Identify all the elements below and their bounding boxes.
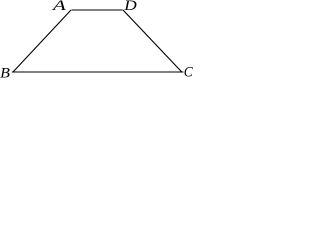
svg-text:C: C [184, 65, 193, 79]
svg-text:D: D [123, 0, 137, 14]
side AD (top of trapezoid) [71, 9, 122, 11]
side BC (bottom of trapezoid) [12, 71, 184, 73]
svg-text:B: B [0, 66, 10, 79]
svg-text:A: A [51, 0, 66, 14]
side AB (left leg) [13, 10, 71, 72]
side DC (right leg) [123, 10, 182, 72]
